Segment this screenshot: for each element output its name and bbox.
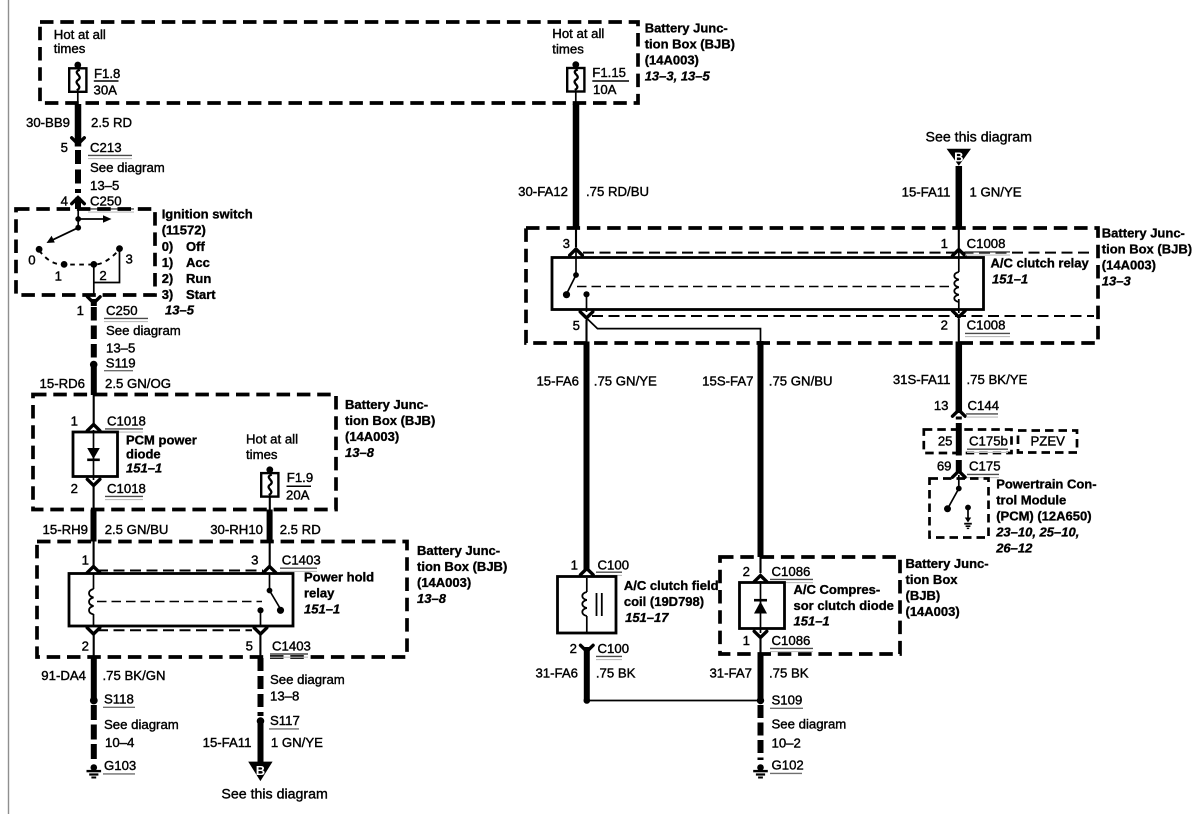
node Hot at all times (left) xyxy=(54,27,106,56)
svg-text:2: 2 xyxy=(71,481,78,496)
node PZEV box xyxy=(1018,431,1077,453)
svg-text:151–1: 151–1 xyxy=(304,602,340,617)
pin 2 label (C1086) xyxy=(743,564,750,579)
svg-text:sor clutch diode: sor clutch diode xyxy=(794,598,894,613)
svg-text:.75 GN/BU: .75 GN/BU xyxy=(769,374,833,389)
diode D2 compressor clutch diode box xyxy=(740,583,785,629)
value label 30-FA12 .75 RD/BU xyxy=(518,184,649,199)
fuse F1.8 xyxy=(69,62,86,92)
connector C1403 pin 5 xyxy=(254,628,311,657)
connector C175 xyxy=(953,459,1001,478)
connector C144 xyxy=(953,398,1000,417)
svg-text:31-FA7: 31-FA7 xyxy=(709,666,752,681)
pin 1 label (C1008) xyxy=(941,236,948,251)
coil L1 winding xyxy=(582,578,587,632)
svg-text:C175b: C175b xyxy=(969,434,1008,449)
svg-text:Battery Junc-: Battery Junc- xyxy=(906,556,989,571)
svg-text:times: times xyxy=(246,447,278,462)
connector C175b box xyxy=(924,430,1012,454)
relay name label xyxy=(304,570,374,617)
svg-text:G102: G102 xyxy=(772,758,804,773)
svg-text:Battery Junc-: Battery Junc- xyxy=(417,543,500,558)
pin 2 label (C1018) xyxy=(71,481,78,496)
node ignition feed junction xyxy=(75,216,81,231)
coil L1 name xyxy=(624,578,719,625)
relay K2 name xyxy=(991,256,1090,287)
svg-text:B: B xyxy=(256,763,265,778)
battery junction box BJB top (14A003) xyxy=(40,22,638,103)
wire dashed C213 to C250 xyxy=(75,150,81,193)
pin 5 label xyxy=(61,140,68,155)
BJB label (compressor diode) xyxy=(906,556,989,619)
ignition position list xyxy=(162,239,217,302)
connector C1018 pin 2 xyxy=(87,479,146,499)
value label F1.15 10A xyxy=(592,65,629,97)
svg-text:31S-FA11: 31S-FA11 xyxy=(893,372,951,387)
battery junction box BJB (power hold relay) xyxy=(37,542,407,658)
wire 15-FA11 1 GN/YE (left) xyxy=(258,721,264,762)
svg-text:See this diagram: See this diagram xyxy=(221,787,327,803)
svg-text:tion Box (BJB): tion Box (BJB) xyxy=(417,559,507,574)
svg-text:2.5 GN/OG: 2.5 GN/OG xyxy=(105,376,171,391)
pin 25 label xyxy=(938,434,953,449)
node B off-page arrow (top) xyxy=(947,149,971,166)
svg-text:(14A003): (14A003) xyxy=(345,429,399,444)
relay K2 coil xyxy=(954,250,959,314)
svg-text:Start: Start xyxy=(186,287,216,302)
See diagram 10-4 note xyxy=(104,717,179,750)
pin 2 label (C100) xyxy=(570,641,577,656)
wire arrow to accessory feed xyxy=(78,215,111,223)
See diagram 10-2 note xyxy=(772,717,847,751)
svg-text:2: 2 xyxy=(743,564,750,579)
svg-text:See diagram: See diagram xyxy=(106,323,181,338)
wire 30-FA12 .75 RD/BU xyxy=(575,92,577,247)
svg-text:10–2: 10–2 xyxy=(772,736,801,751)
ground G103 xyxy=(87,758,137,778)
value label 30-BB9 2.5 RD xyxy=(26,115,132,130)
svg-text:13–8: 13–8 xyxy=(345,445,375,460)
svg-text:C1018: C1018 xyxy=(107,414,146,429)
svg-text:tion Box: tion Box xyxy=(906,572,959,587)
See diagram 13-8 note xyxy=(270,672,345,704)
svg-text:1: 1 xyxy=(743,633,750,648)
svg-text:Off: Off xyxy=(186,239,205,254)
value label F1.8 30A xyxy=(94,66,121,98)
wire ignition feed xyxy=(77,209,79,228)
relay K1 switch xyxy=(267,574,281,609)
page ref 13-5 (ignition) xyxy=(165,303,195,318)
svg-text:10A: 10A xyxy=(593,82,617,97)
svg-text:3: 3 xyxy=(126,252,133,267)
svg-text:relay: relay xyxy=(304,586,335,601)
svg-text:13–5: 13–5 xyxy=(165,303,195,318)
svg-text:B: B xyxy=(954,149,963,164)
svg-text:151–1: 151–1 xyxy=(126,461,162,476)
svg-text:(PCM) (12A650): (PCM) (12A650) xyxy=(996,509,1091,524)
wire jumper pin5 to 15S-FA7 xyxy=(588,319,761,341)
PCM switch xyxy=(944,486,962,513)
diode D2 symbol xyxy=(754,600,767,613)
svg-text:2: 2 xyxy=(941,318,948,333)
node Hot at all times (F1.9) xyxy=(246,432,298,463)
svg-text:Battery Junc-: Battery Junc- xyxy=(1102,226,1185,241)
svg-text:1: 1 xyxy=(82,553,89,568)
wire inner bus top (A/C relay) xyxy=(583,252,1094,254)
PCM internal ground xyxy=(964,505,972,529)
wire 15-RD6 2.5 GN/OG xyxy=(91,366,97,425)
value label 15S-FA7 .75 GN/BU xyxy=(702,374,832,389)
connector C1008 pin 2 xyxy=(953,311,1011,337)
svg-text:2: 2 xyxy=(99,268,106,283)
svg-text:See diagram: See diagram xyxy=(90,160,165,175)
connector C1018 pin 1 xyxy=(87,414,146,433)
wire scan artifact line xyxy=(8,0,10,814)
connector pin 3 arrow (A/C relay) xyxy=(570,249,583,255)
svg-text:tion Box (BJB): tion Box (BJB) xyxy=(1102,242,1192,257)
svg-text:A/C Compres-: A/C Compres- xyxy=(794,582,881,597)
wire pin 5 inside relay (A/C) xyxy=(586,294,588,312)
svg-text:2.5 RD: 2.5 RD xyxy=(280,522,321,537)
svg-text:25: 25 xyxy=(938,434,953,449)
wire dashed C1403-5 to S117 xyxy=(259,634,261,716)
pin 1 label (power hold relay) xyxy=(82,553,89,568)
value label 31S-FA11 .75 BK/YE xyxy=(893,372,1028,387)
svg-text:69: 69 xyxy=(937,459,952,474)
svg-text:5: 5 xyxy=(573,318,580,333)
BJB label (13-8 diode) xyxy=(345,397,435,460)
svg-text:C1008: C1008 xyxy=(967,318,1006,333)
svg-text:C1403: C1403 xyxy=(282,553,321,568)
svg-text:13–8: 13–8 xyxy=(417,591,447,606)
svg-text:3): 3) xyxy=(162,287,174,302)
svg-text:13–5: 13–5 xyxy=(90,178,119,193)
svg-text:30-RH10: 30-RH10 xyxy=(210,522,263,537)
svg-text:31-FA6: 31-FA6 xyxy=(535,666,578,681)
diode D1 symbol xyxy=(87,448,100,460)
pin 5 label (A/C relay) xyxy=(573,318,580,333)
wire through diode D2 xyxy=(760,581,762,633)
svg-text:1: 1 xyxy=(77,303,84,318)
svg-text:PZEV: PZEV xyxy=(1031,434,1066,449)
value label 15-FA6 .75 GN/YE xyxy=(536,374,657,389)
svg-text:.75 BK/GN: .75 BK/GN xyxy=(103,668,166,683)
svg-text:S117: S117 xyxy=(270,713,300,728)
svg-text:F1.8: F1.8 xyxy=(94,66,120,81)
svg-text:A/C clutch field: A/C clutch field xyxy=(624,578,719,593)
svg-text:(14A003): (14A003) xyxy=(645,53,699,68)
svg-text:13: 13 xyxy=(934,398,949,413)
svg-text:times: times xyxy=(552,42,584,57)
value label 31-FA7 .75 BK xyxy=(709,666,808,681)
ignition switch name label xyxy=(162,206,253,237)
connector C213 xyxy=(72,138,132,159)
svg-text:S119: S119 xyxy=(106,356,136,371)
wire link to S109 xyxy=(587,700,761,702)
wire pin 5 inside relay xyxy=(260,610,262,626)
svg-text:0): 0) xyxy=(162,239,174,254)
connector pin 1 arrow xyxy=(87,567,100,573)
See this diagram note (top) xyxy=(926,130,1032,146)
svg-text:2: 2 xyxy=(82,639,89,654)
svg-text:15S-FA7: 15S-FA7 xyxy=(702,374,753,389)
svg-text:4: 4 xyxy=(61,194,68,209)
node B off-page arrow (bottom) xyxy=(248,762,272,782)
svg-text:C100: C100 xyxy=(598,641,630,656)
pin 4 label xyxy=(61,194,68,209)
wire 30-BB9 2.5 RD xyxy=(77,92,79,147)
svg-text:Hot at all: Hot at all xyxy=(246,432,298,447)
svg-text:1 GN/YE: 1 GN/YE xyxy=(970,185,1022,200)
relay K2 switch contact xyxy=(563,291,590,298)
value label 91-DA4 .75 BK/GN xyxy=(41,668,165,683)
svg-text:C1086: C1086 xyxy=(772,633,811,648)
connector C1403 pin 3 xyxy=(263,553,320,573)
connector C250 pin 1 xyxy=(88,297,149,322)
svg-text:0: 0 xyxy=(28,253,35,268)
pin 2 label (C1008) xyxy=(941,318,948,333)
svg-text:(BJB): (BJB) xyxy=(906,588,941,603)
svg-text:10–4: 10–4 xyxy=(105,735,134,750)
value label 15-RD6 2.5 GN/OG xyxy=(40,376,171,391)
value label 15-FA11 1 GN/YE xyxy=(203,735,324,750)
node position 3 xyxy=(116,245,133,266)
svg-text:G103: G103 xyxy=(104,758,136,773)
svg-text:C1018: C1018 xyxy=(107,481,146,496)
wire rotary dashed arc xyxy=(39,250,119,265)
svg-text:C1008: C1008 xyxy=(967,236,1006,251)
relay K1 switch contact xyxy=(257,607,284,614)
wire inner bus top (power hold) xyxy=(97,570,263,572)
svg-text:30-FA12: 30-FA12 xyxy=(518,184,568,199)
svg-text:23–10, 25–10,: 23–10, 25–10, xyxy=(995,525,1079,540)
svg-text:15-RD6: 15-RD6 xyxy=(40,376,85,391)
svg-text:15-FA6: 15-FA6 xyxy=(536,374,579,389)
svg-text:S118: S118 xyxy=(104,692,134,707)
svg-text:Powertrain Con-: Powertrain Con- xyxy=(996,477,1096,492)
svg-text:S109: S109 xyxy=(772,693,803,708)
coil L1 clutch plates xyxy=(597,593,602,616)
svg-text:1: 1 xyxy=(571,558,578,573)
connector C100 pin 1 xyxy=(581,558,630,576)
coil L1 A/C clutch field coil box xyxy=(558,577,617,634)
wire 30-RH10 2.5 RD xyxy=(269,497,271,568)
svg-text:Battery Junc-: Battery Junc- xyxy=(345,397,428,412)
svg-text:.75 BK/YE: .75 BK/YE xyxy=(967,372,1028,387)
svg-text:Hot at all: Hot at all xyxy=(54,27,106,42)
svg-text:C100: C100 xyxy=(598,558,630,573)
svg-text:3: 3 xyxy=(251,553,258,568)
connector C1086 pin 1 xyxy=(754,631,813,651)
svg-text:(11572): (11572) xyxy=(162,223,206,238)
relay K1 coil xyxy=(89,574,94,626)
svg-text:15-FA11: 15-FA11 xyxy=(902,185,951,200)
node position 0 xyxy=(28,246,42,268)
value label 31-FA6 .75 BK xyxy=(535,666,635,681)
svg-text:tion Box (BJB): tion Box (BJB) xyxy=(345,413,435,428)
splice S117 xyxy=(257,713,300,729)
svg-text:C1403: C1403 xyxy=(272,639,311,654)
wire into PCM xyxy=(958,475,960,489)
PCM power diode name xyxy=(126,433,197,476)
svg-text:See this diagram: See this diagram xyxy=(926,130,1032,146)
pin 1 label (C1018) xyxy=(71,414,78,429)
svg-text:5: 5 xyxy=(61,140,68,155)
PCM name label xyxy=(995,477,1096,556)
svg-text:Acc: Acc xyxy=(186,255,210,270)
ignition switch box (11572) xyxy=(16,209,155,295)
svg-text:(14A003): (14A003) xyxy=(906,604,960,619)
svg-text:C250: C250 xyxy=(106,303,138,318)
wire dashed S118 to G103 xyxy=(91,705,97,760)
wire C144 to C175b xyxy=(956,417,962,474)
node Hot at all times (middle) xyxy=(552,26,604,57)
powertrain control module PCM box xyxy=(930,479,989,538)
wire dashed C250 to S119 xyxy=(91,307,97,360)
svg-text:151–1: 151–1 xyxy=(992,272,1028,287)
svg-text:20A: 20A xyxy=(286,488,310,503)
svg-text:2): 2) xyxy=(162,271,174,286)
wire 31-FA7 .75 BK xyxy=(759,639,761,700)
svg-text:151–17: 151–17 xyxy=(625,610,669,625)
wire relay internal dashed (A/C relay) xyxy=(577,286,950,288)
BJB label (power hold) xyxy=(417,543,507,606)
svg-text:.75 RD/BU: .75 RD/BU xyxy=(586,184,649,199)
splice S119 xyxy=(90,356,136,371)
wire 15S-FA7 .75 GN/BU xyxy=(758,341,764,573)
svg-text:diode: diode xyxy=(126,447,161,462)
See this diagram note (bottom) xyxy=(221,787,327,803)
node junction to S109 xyxy=(584,697,591,704)
splice S118 xyxy=(90,692,135,708)
svg-text:151–1: 151–1 xyxy=(794,614,830,629)
wire relay internal dashed (power hold) xyxy=(97,601,262,603)
svg-text:.75 GN/YE: .75 GN/YE xyxy=(594,374,657,389)
svg-text:5: 5 xyxy=(246,639,253,654)
battery junction box BJB (compressor diode) xyxy=(720,557,900,654)
BJB label (A/C relay) xyxy=(1102,226,1192,289)
wire 31S-FA11 .75 BK/YE xyxy=(958,319,960,413)
diode D1 PCM power diode box xyxy=(73,432,118,477)
svg-text:C144: C144 xyxy=(968,398,1000,413)
svg-text:91-DA4: 91-DA4 xyxy=(41,668,86,683)
svg-text:Ignition switch: Ignition switch xyxy=(162,206,253,221)
svg-text:C1086: C1086 xyxy=(772,564,811,579)
connector C175b xyxy=(967,434,1008,453)
svg-text:2.5 GN/BU: 2.5 GN/BU xyxy=(105,522,169,537)
node position 2 xyxy=(90,261,106,283)
diode D2 name xyxy=(794,582,894,629)
svg-text:See diagram: See diagram xyxy=(104,717,179,732)
svg-text:Power hold: Power hold xyxy=(304,570,374,585)
wire from position 3 xyxy=(94,249,120,283)
value label 30-RH10 2.5 RD xyxy=(210,522,321,537)
svg-text:1: 1 xyxy=(71,414,78,429)
svg-text:F1.9: F1.9 xyxy=(287,470,313,485)
svg-text:.75 BK: .75 BK xyxy=(596,666,636,681)
svg-text:Hot at all: Hot at all xyxy=(552,26,604,41)
value label F1.9 20A xyxy=(286,470,313,503)
svg-text:See diagram: See diagram xyxy=(772,717,847,732)
svg-text:1: 1 xyxy=(941,236,948,251)
svg-text:PCM power: PCM power xyxy=(126,433,197,448)
svg-text:Battery Junc-: Battery Junc- xyxy=(645,21,728,36)
value label 15-RH9 2.5 GN/BU xyxy=(43,522,169,537)
wire through diode xyxy=(93,430,95,480)
svg-text:tion Box (BJB): tion Box (BJB) xyxy=(645,37,735,52)
svg-text:13–3, 13–5: 13–3, 13–5 xyxy=(645,69,711,84)
svg-text:F1.15: F1.15 xyxy=(592,65,626,80)
fuse F1.15 xyxy=(567,61,584,91)
svg-text:26–12: 26–12 xyxy=(995,541,1033,556)
pin 1 label (C100) xyxy=(571,558,578,573)
svg-text:times: times xyxy=(54,41,86,56)
fuse F1.9 xyxy=(261,466,278,496)
BJB label top xyxy=(645,21,735,84)
svg-text:coil (19D798): coil (19D798) xyxy=(624,594,704,609)
wire inner bus bottom (power hold) xyxy=(97,629,252,631)
wire dashed S109 to G102 xyxy=(758,705,764,760)
wire inner bus bottom (A/C relay) xyxy=(592,315,1094,317)
pin 1 label (C1086) xyxy=(743,633,750,648)
splice S109 xyxy=(757,693,803,709)
svg-text:A/C clutch relay: A/C clutch relay xyxy=(991,256,1090,271)
svg-text:(14A003): (14A003) xyxy=(417,575,471,590)
See diagram 13-5 note xyxy=(90,160,165,193)
wire 31-FA6 .75 BK xyxy=(584,647,590,700)
value label 15-FA11 1 GN/YE (top) xyxy=(902,185,1022,200)
svg-text:13–5: 13–5 xyxy=(106,341,135,356)
connector pin 5 arrow (A/C relay) xyxy=(580,312,593,318)
pin 3 label (C1403) xyxy=(251,553,258,568)
svg-text:1: 1 xyxy=(55,269,62,284)
pin 3 label (A/C relay) xyxy=(563,236,570,251)
wire 15-RH9 2.5 GN/BU xyxy=(92,486,94,567)
node position 1 xyxy=(55,261,68,284)
relay K2 A/C clutch relay box xyxy=(552,258,984,310)
pin 69 label xyxy=(937,459,952,474)
pin 5 label (C1403) xyxy=(246,639,253,654)
svg-text:C175: C175 xyxy=(969,459,1001,474)
svg-text:15-FA11: 15-FA11 xyxy=(203,735,252,750)
wire arrow to position 0 xyxy=(47,228,79,243)
wire 91-DA4 .75 BK/GN xyxy=(93,634,95,700)
connector C1086 pin 2 xyxy=(754,564,813,583)
connector C100 pin 2 xyxy=(581,641,630,660)
svg-text:C250: C250 xyxy=(90,194,122,209)
wire 15-FA11 1 GN/YE (top) xyxy=(956,166,963,248)
svg-text:1): 1) xyxy=(162,255,174,270)
svg-text:2.5 RD: 2.5 RD xyxy=(91,115,132,130)
svg-text:30A: 30A xyxy=(94,83,118,98)
svg-text:3: 3 xyxy=(563,236,570,251)
svg-text:13–3: 13–3 xyxy=(1102,274,1132,289)
pin 13 label xyxy=(934,398,949,413)
svg-text:13–8: 13–8 xyxy=(270,689,299,704)
svg-text:(14A003): (14A003) xyxy=(1102,258,1156,273)
svg-text:1 GN/YE: 1 GN/YE xyxy=(271,735,323,750)
svg-text:15-RH9: 15-RH9 xyxy=(43,522,88,537)
battery junction box BJB (A/C clutch relay) xyxy=(526,228,1098,343)
relay K1 power hold relay box xyxy=(69,574,293,627)
svg-text:.75 BK: .75 BK xyxy=(769,666,809,681)
relay K2 switch xyxy=(567,251,579,294)
svg-text:See diagram: See diagram xyxy=(270,672,345,687)
pin 2 label (power hold) xyxy=(82,639,89,654)
See diagram 13-5 note 2 xyxy=(106,323,181,356)
pin 1 label (C250) xyxy=(77,303,84,318)
svg-text:2: 2 xyxy=(570,641,577,656)
